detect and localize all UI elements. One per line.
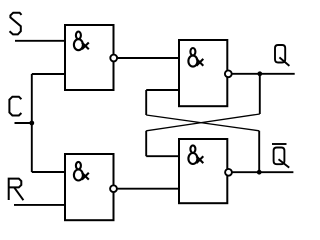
gate U3 inversion bubble <box>225 70 232 77</box>
gate U4 inversion bubble <box>225 169 232 176</box>
label Q <box>275 45 289 66</box>
wire Qbar feedback diagonal <box>146 115 259 131</box>
wire G2 output to G4 input 2 <box>117 188 179 190</box>
label S <box>10 13 22 35</box>
wire S input <box>15 40 65 42</box>
label Qbar (Q with overline) <box>272 144 289 168</box>
node Qbar junction dot <box>257 170 262 175</box>
gate U4 ampersand <box>188 145 203 164</box>
gate U2 NAND body (bottom-left) <box>65 154 114 220</box>
gate U1 ampersand <box>74 32 89 51</box>
gate U3 ampersand <box>188 48 203 67</box>
gate U1 inversion bubble <box>110 55 117 62</box>
wire G1 output to G3 input 1 <box>117 57 179 59</box>
gate U2 inversion bubble <box>110 185 117 192</box>
label C <box>9 97 21 116</box>
wire Q feedback diagonal <box>146 114 260 131</box>
wire to G4 input 1 <box>146 155 179 157</box>
gate U3 NAND body (top-right) <box>179 40 227 106</box>
wire C vertical <box>31 74 33 172</box>
wire G3 input 2 horizontal <box>146 89 179 91</box>
wire Qbar output <box>232 171 293 173</box>
wire Qbar feedback vertical <box>258 131 260 172</box>
wire feedback left vertical down <box>145 131 147 156</box>
gate U1 NAND body (top-left) <box>65 25 114 90</box>
label R <box>9 179 24 201</box>
gate U2 ampersand <box>74 162 89 181</box>
wire C stub <box>15 122 32 124</box>
wire Q output <box>232 73 295 75</box>
wire feedback left vertical up <box>145 90 147 115</box>
wire C to G2 input 1 <box>32 171 65 173</box>
gate U4 NAND body (bottom-right) <box>179 139 227 203</box>
wire R input <box>14 204 65 206</box>
node Q junction dot <box>257 71 262 76</box>
wire Q feedback vertical <box>259 74 261 114</box>
node C junction dot <box>29 121 34 126</box>
wire C to G1 input 2 <box>32 73 65 75</box>
